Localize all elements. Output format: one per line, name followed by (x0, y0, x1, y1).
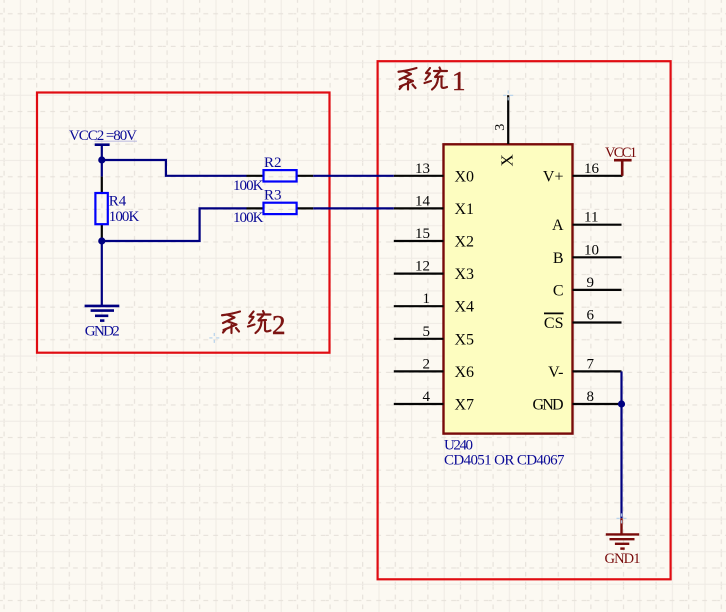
wire R2 to pin 13 (313, 175, 394, 177)
system box 系统1 (378, 61, 671, 579)
svg-text:6: 6 (587, 308, 595, 324)
svg-text:B: B (553, 250, 564, 267)
svg-text:GND2: GND2 (85, 323, 120, 339)
pin 6 CS (active low) (544, 308, 622, 333)
svg-text:X6: X6 (455, 364, 475, 381)
svg-text:X3: X3 (455, 266, 475, 283)
pin 4 X7 (394, 389, 474, 414)
pin 5 X5 (394, 324, 474, 349)
svg-text:100K: 100K (233, 210, 264, 226)
pin 16 V+ (543, 161, 623, 186)
svg-text:X7: X7 (455, 397, 475, 414)
resistor R2 (247, 170, 314, 181)
svg-text:V+: V+ (543, 168, 564, 185)
resistor R3 (247, 203, 314, 214)
ground GND1 (606, 518, 639, 548)
pin 15 X2 (394, 226, 474, 251)
junction A (98, 156, 105, 163)
svg-text:R2: R2 (264, 155, 282, 171)
svg-text:15: 15 (415, 226, 430, 242)
power port VCC1 (614, 160, 632, 176)
pin 1 X4 (394, 291, 474, 316)
svg-text:5: 5 (423, 324, 431, 340)
power port VCC2 (95, 145, 110, 160)
wire junction C to GND1 (620, 404, 622, 518)
IC U240 body (444, 144, 573, 433)
svg-text:7: 7 (587, 356, 595, 372)
svg-text:X5: X5 (455, 331, 475, 348)
svg-text:9: 9 (587, 275, 595, 291)
svg-text:16: 16 (584, 161, 600, 177)
svg-text:13: 13 (415, 161, 430, 177)
svg-text:R4: R4 (109, 193, 127, 209)
svg-text:2: 2 (272, 310, 286, 340)
resistor R4 (95, 177, 107, 241)
svg-text:100K: 100K (233, 178, 264, 194)
svg-text:X1: X1 (455, 201, 475, 218)
wire R3 to pin 14 (313, 207, 394, 209)
svg-text:10: 10 (584, 242, 599, 258)
svg-text:R3: R3 (264, 187, 282, 203)
pin 13 X0 (394, 161, 474, 186)
svg-text:4: 4 (423, 389, 431, 405)
pin 9 C (553, 275, 622, 300)
wire pin7 to junction C (620, 371, 622, 404)
svg-text:3: 3 (493, 124, 508, 131)
svg-text:1: 1 (452, 66, 466, 96)
pin 3 X (top) (493, 95, 517, 166)
svg-text:GND: GND (533, 397, 564, 414)
svg-text:CD4051 OR CD4067: CD4051 OR CD4067 (444, 453, 565, 469)
svg-text:X: X (498, 154, 517, 166)
wire junction B to GND2 (101, 241, 103, 306)
title 系统1 (399, 68, 448, 90)
svg-text:100K: 100K (109, 209, 140, 225)
svg-text:U240: U240 (444, 437, 473, 453)
title 系统2 (222, 311, 271, 333)
svg-text:VCC1: VCC1 (605, 145, 637, 161)
pin 14 X1 (394, 193, 474, 218)
junction C (618, 400, 625, 407)
junction B (98, 237, 105, 244)
svg-text:V-: V- (548, 364, 563, 381)
wire junction B to R3 (102, 208, 247, 241)
label underline marker (95, 140, 138, 142)
pin 8 GND (533, 389, 622, 414)
svg-text:C: C (553, 282, 564, 299)
system box 系统2 (37, 93, 330, 353)
node marker at pin 3 top (503, 90, 513, 100)
svg-text:A: A (552, 217, 564, 234)
pin 2 X6 (394, 356, 474, 381)
svg-text:8: 8 (587, 389, 595, 405)
node marker near title 系统2 (209, 333, 219, 343)
ground GND2 (85, 306, 120, 321)
pin 12 X3 (394, 259, 474, 284)
svg-text:1: 1 (423, 291, 431, 307)
svg-text:14: 14 (415, 193, 431, 209)
svg-text:2: 2 (423, 356, 431, 372)
svg-text:X2: X2 (455, 234, 475, 251)
wire junction A to R4 (101, 160, 103, 177)
svg-text:11: 11 (584, 210, 598, 226)
wire junction A to R2 (102, 160, 247, 176)
svg-text:CS: CS (544, 315, 564, 332)
svg-text:X4: X4 (455, 299, 475, 316)
svg-text:GND1: GND1 (605, 551, 641, 567)
node marker at GND1 wire end (617, 513, 627, 523)
svg-text:12: 12 (415, 259, 430, 275)
pin 11 A (552, 210, 622, 235)
svg-text:X0: X0 (455, 168, 475, 185)
pin 10 B (553, 242, 622, 266)
pin 7 V- (548, 356, 621, 381)
